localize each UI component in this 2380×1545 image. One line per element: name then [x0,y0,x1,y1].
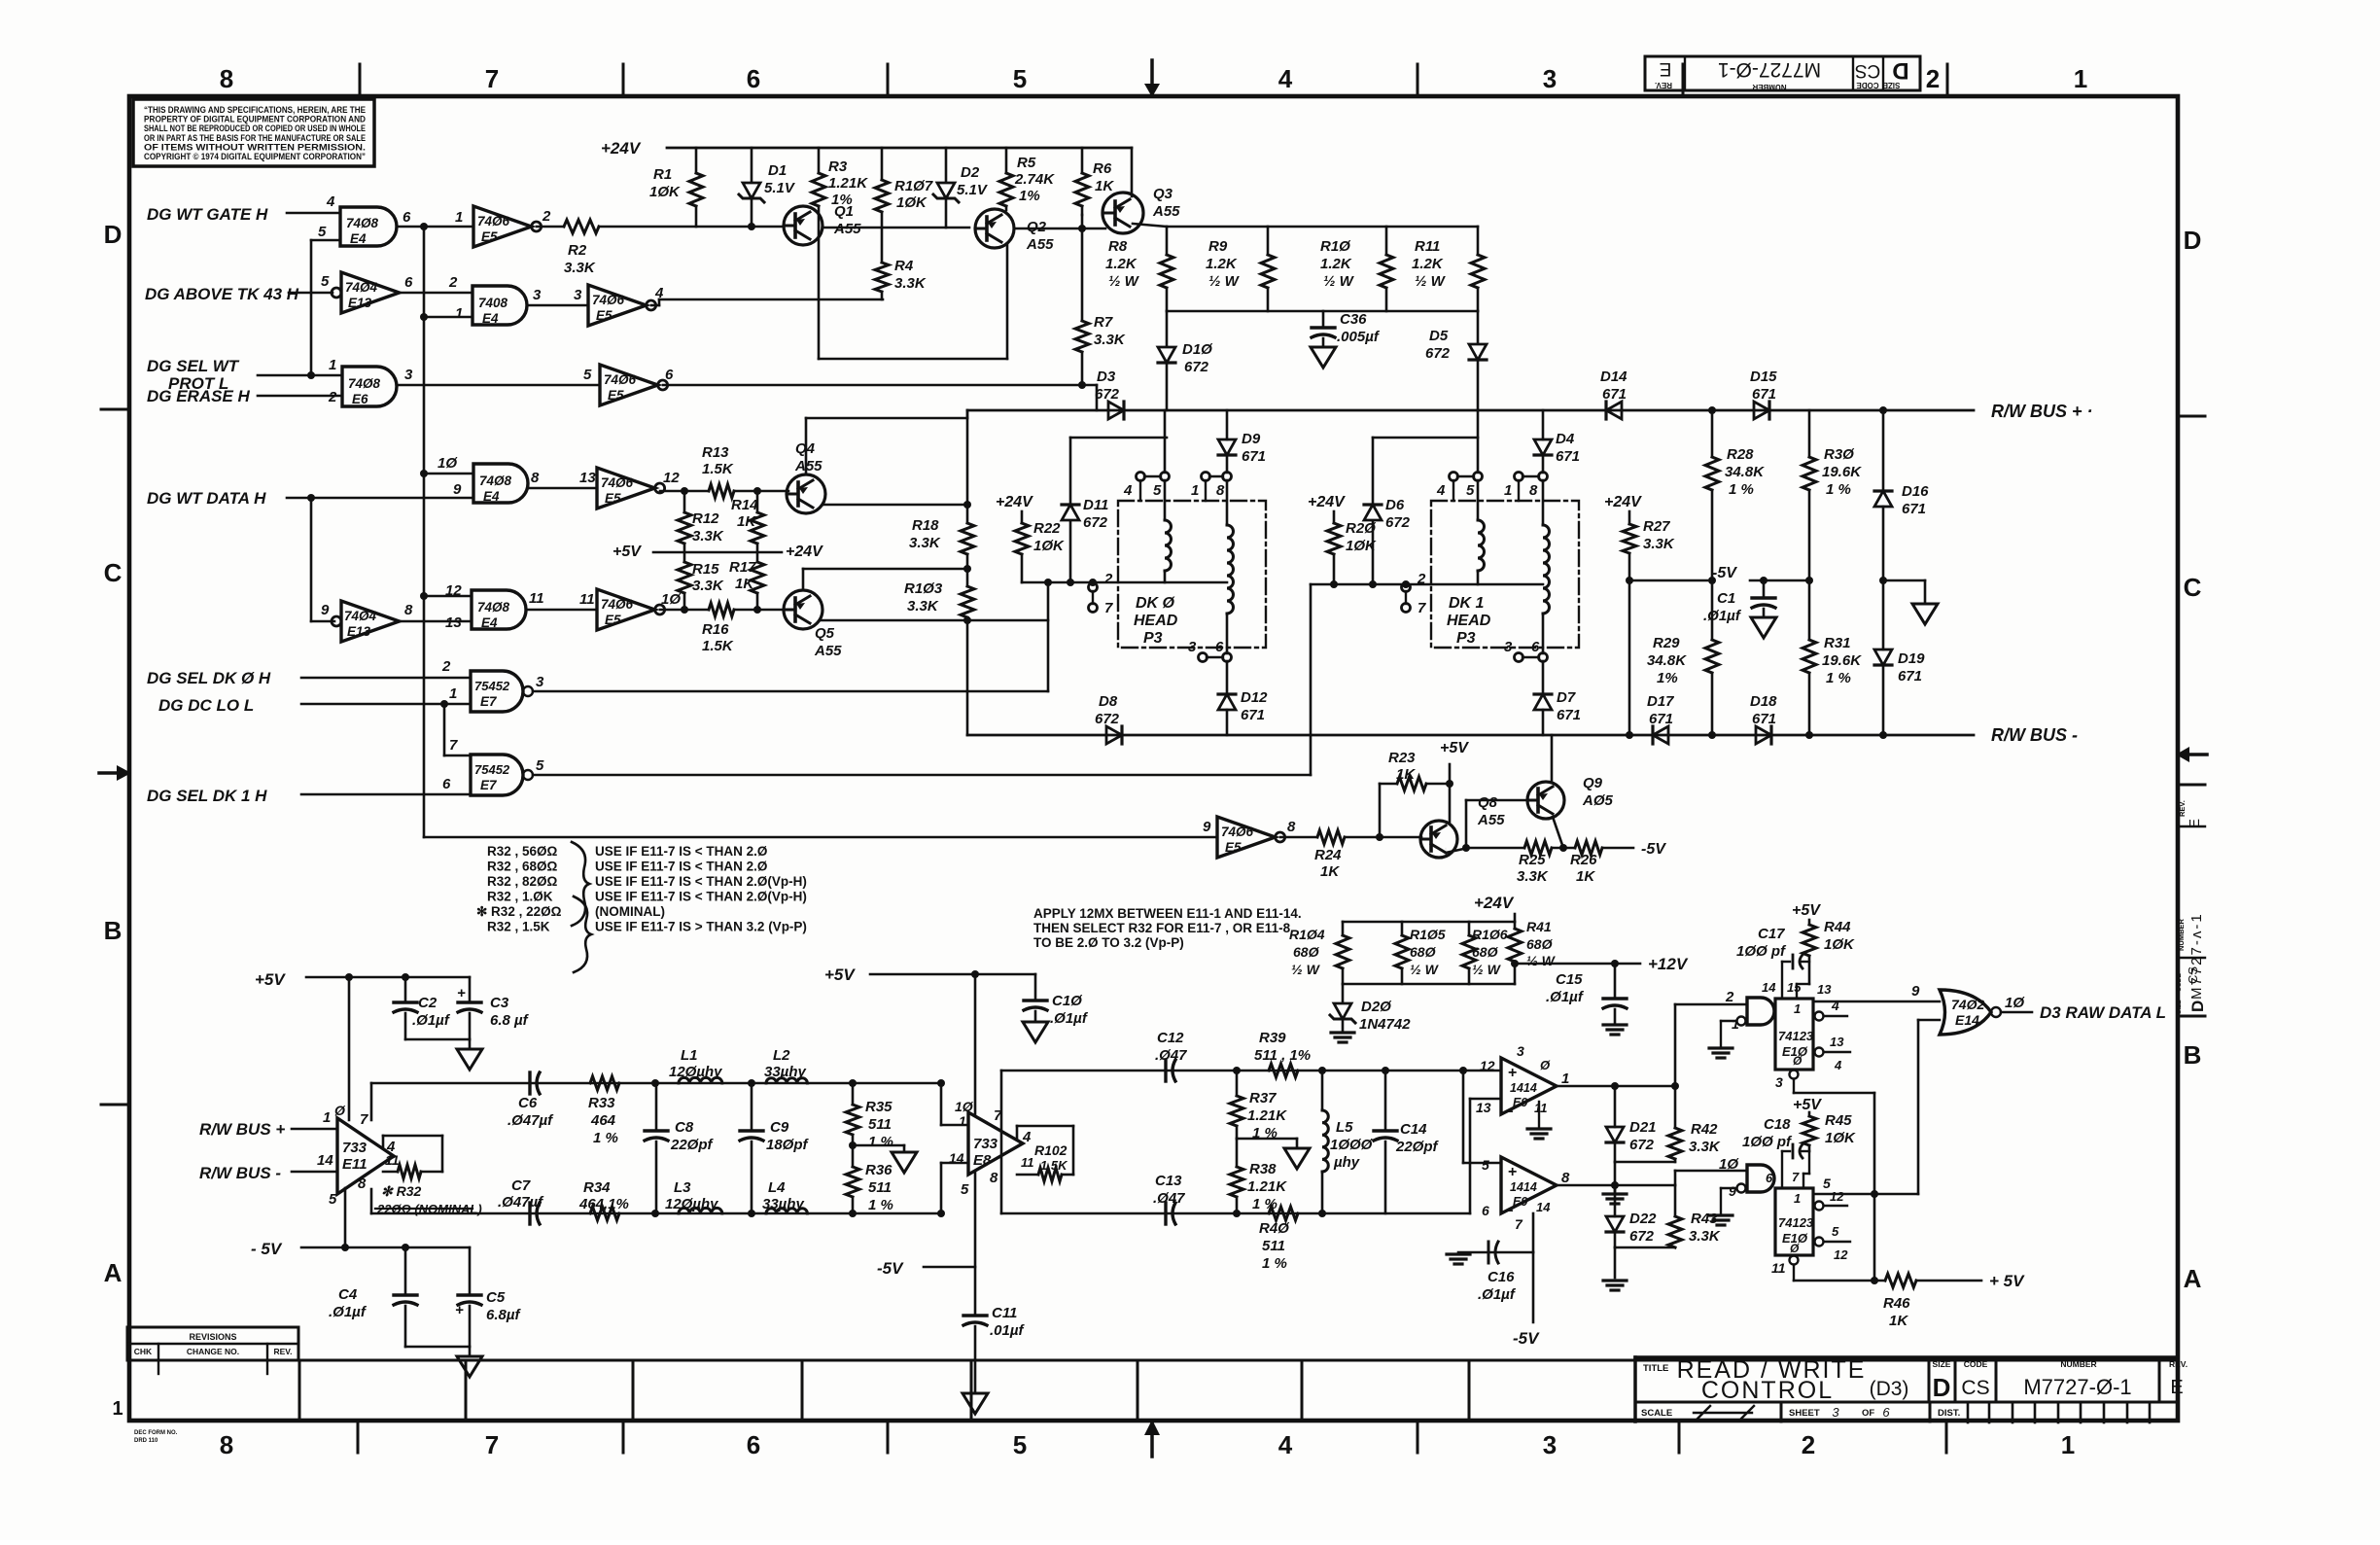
Q1 cross-couple vertical [818,206,821,359]
svg-text:3.3K: 3.3K [909,535,941,551]
C4/C5 bottom + gnd [405,1346,470,1349]
gnd for pin9 [1721,1187,1736,1189]
svg-text:733: 733 [342,1140,367,1156]
svg-text:R37: R37 [1249,1090,1277,1106]
svg-text:3.3K: 3.3K [1643,536,1675,552]
svg-text:1K: 1K [735,576,754,592]
diode D10 [1166,311,1169,345]
svg-text:SIZE: SIZE [2176,1000,2183,1014]
svg-text:2.74K: 2.74K [1014,171,1055,188]
E10a pin4 stub [1815,1012,1824,1021]
svg-text:74Ø8: 74Ø8 [477,600,510,614]
svg-text:75452: 75452 [474,679,510,693]
svg-text:(D3): (D3) [1870,1378,1909,1400]
svg-text:HEAD: HEAD [1447,613,1491,629]
svg-text:6: 6 [402,209,411,226]
svg-text:D22: D22 [1629,1211,1657,1227]
svg-text:1: 1 [455,209,463,226]
svg-text:“THIS DRAWING AND SPECIFICATIO: “THIS DRAWING AND SPECIFICATIONS, HEREIN… [144,105,366,115]
svg-text:3.3K: 3.3K [564,260,596,276]
wire E5c out long [663,384,1097,387]
svg-text:R13: R13 [702,444,729,461]
wire R13 to Q4 [734,490,788,493]
svg-text:Q8: Q8 [1478,794,1498,811]
svg-text:2: 2 [448,274,458,291]
resistor R5 [1005,148,1008,173]
svg-text:L4: L4 [768,1179,786,1196]
svg-text:3.3K: 3.3K [894,275,927,292]
svg-text:A: A [2184,1264,2202,1293]
svg-text:R32 , 68ØΩ: R32 , 68ØΩ [487,860,558,874]
zone ticks bottom [357,1421,360,1453]
svg-text:1.2K: 1.2K [1105,256,1137,272]
bottom strip row [129,1359,2178,1362]
svg-text:D5: D5 [1429,328,1449,344]
svg-text:1 %: 1 % [1729,481,1754,498]
wire R16 to Q5 [734,609,788,612]
resistor R107 [881,148,884,180]
svg-text:✻ R32: ✻ R32 [381,1183,422,1199]
capacitor C18 bridge [1781,1151,1783,1188]
svg-text:+: + [1508,1164,1517,1180]
svg-text:E5: E5 [605,613,621,627]
svg-text:E11: E11 [342,1156,367,1173]
transistor Q1 [784,206,822,245]
svg-text:19.6K: 19.6K [1822,464,1862,480]
svg-text:+24V: +24V [1308,494,1346,510]
DK1 coil B [1542,480,1545,525]
diode D18 [1756,726,1771,744]
svg-text:E6: E6 [352,392,368,406]
svg-text:A55: A55 [794,458,822,474]
comparator E9b 1414 triangle [1501,1157,1557,1213]
svg-text:5: 5 [1466,482,1475,499]
svg-text:(NOMINAL): (NOMINAL) [595,904,665,919]
resistor R1 [695,148,698,173]
svg-text:6: 6 [404,274,413,291]
resistor R45 [1808,1145,1811,1151]
resistor R14 [756,491,759,512]
svg-text:R44: R44 [1824,919,1851,935]
svg-text:4: 4 [1278,1430,1293,1459]
svg-text:2: 2 [441,658,451,675]
DK0 node wire [1022,581,1227,584]
svg-text:REVISIONS: REVISIONS [189,1332,236,1342]
svg-text:R39: R39 [1259,1030,1286,1046]
nor gate E14 7402 [1940,990,1991,1035]
svg-text:6.8µf: 6.8µf [486,1307,521,1323]
DK0 coil B [1226,480,1229,525]
contacts 1-8 [1202,473,1210,481]
E9a out wire [1557,1085,1675,1088]
svg-text:1: 1 [2061,1430,2075,1459]
E9a gnd [1538,1102,1540,1128]
svg-text:1: 1 [2074,64,2087,93]
svg-text:NUMBER: NUMBER [1752,83,1786,91]
svg-text:11: 11 [1534,1101,1548,1115]
svg-text:2: 2 [1103,571,1113,587]
svg-text:USE IF E11-7 IS < THAN 2.Ø(Vp-: USE IF E11-7 IS < THAN 2.Ø(Vp-H) [595,874,807,889]
svg-text:74Ø6: 74Ø6 [477,214,510,228]
svg-text:R45: R45 [1825,1112,1852,1129]
svg-text:672: 672 [1083,514,1108,531]
+5V riser to E11 [348,977,351,1120]
svg-text:SIZE: SIZE [1882,81,1900,89]
contacts 3-6 DK1 [1515,653,1523,662]
svg-text:R4: R4 [894,258,914,274]
svg-text:671: 671 [1649,711,1673,727]
svg-text:+24V: +24V [1474,894,1515,912]
svg-text:8: 8 [220,1430,233,1459]
svg-text:671: 671 [1602,386,1627,403]
svg-text:2: 2 [1725,989,1734,1005]
svg-text:R29: R29 [1653,635,1680,651]
svg-text:14: 14 [949,1150,964,1166]
wire E6 out to E5c [397,384,600,387]
svg-text:NUMBER: NUMBER [2177,919,2186,951]
svg-text:2: 2 [1802,1430,1815,1459]
table brace lower [574,896,591,972]
svg-text:THEN SELECT R32 FOR E11-7: THEN SELECT R32 FOR E11-7 , OR E11-8 [1033,921,1291,935]
wire Q2 to Q3 [1014,228,1105,230]
svg-text:68Ø: 68Ø [1293,944,1320,960]
svg-text:R36: R36 [865,1162,892,1178]
svg-text:DG ERASE H: DG ERASE H [147,387,251,405]
svg-text:Q1: Q1 [834,203,854,220]
svg-text:R28: R28 [1727,446,1754,463]
svg-text:C5: C5 [486,1289,506,1306]
svg-text:USE IF E11-7 IS < THAN 2.Ø(Vp-: USE IF E11-7 IS < THAN 2.Ø(Vp-H) [595,890,807,904]
svg-text:+24V: +24V [601,139,642,158]
svg-text:34.8K: 34.8K [1647,652,1687,669]
svg-text:SHALL NOT BE REPRODUCED OR COP: SHALL NOT BE REPRODUCED OR COPIED OR USE… [144,123,366,133]
one-shot E10a 74123 [1775,999,1813,1070]
svg-text:.Ø1µf: .Ø1µf [412,1012,451,1029]
svg-text:C: C [2184,573,2202,602]
svg-text:C6: C6 [518,1095,538,1111]
svg-text:D4: D4 [1556,431,1575,447]
svg-text:APPLY 12MX BETWEEN E11-1 A: APPLY 12MX BETWEEN E11-1 AND E11-14. [1033,906,1302,921]
resistor R18 [961,523,974,554]
svg-text:C: C [104,558,122,587]
zone ticks right border [2178,415,2205,418]
svg-text:R1Ø7: R1Ø7 [894,178,933,194]
mid wire to gnd [1237,1138,1297,1141]
svg-text:5: 5 [536,757,544,774]
svg-text:C11: C11 [992,1305,1017,1321]
svg-text:74Ø4: 74Ø4 [345,280,378,295]
svg-text:R25: R25 [1519,852,1546,868]
svg-text:USE IF E11-7 IS < THAN 2.Ø: USE IF E11-7 IS < THAN 2.Ø [595,860,767,874]
svg-text:12: 12 [1480,1058,1495,1073]
wire pin1 E4b [424,316,472,319]
svg-text:3.3K: 3.3K [692,578,724,594]
contacts 4-5 [1137,473,1145,481]
cross couple bottom [819,358,1007,361]
resistor R38 [1236,1139,1239,1167]
svg-text:E4: E4 [483,489,500,504]
svg-text:DG SEL WT: DG SEL WT [147,357,240,375]
svg-text:E13: E13 [348,296,372,310]
contacts 2-7 [1089,583,1098,592]
svg-text:672: 672 [1385,514,1411,531]
svg-text:33µhy: 33µhy [764,1064,806,1080]
svg-text:.Ø1µf: .Ø1µf [1546,989,1585,1005]
svg-text:R12: R12 [692,510,719,527]
E10b pin12 stub [1815,1202,1824,1211]
amp E8 733 triangle [968,1112,1023,1175]
fold arrow bottom [1150,1422,1154,1457]
svg-text:1: 1 [959,1113,966,1129]
capacitor C36 [1322,311,1325,327]
svg-text:R22: R22 [1033,520,1061,537]
resistor R46 [1885,1274,1916,1287]
Q5 emitter wire [821,619,1048,622]
resistor R16 [709,603,734,616]
svg-text:1414: 1414 [1510,1081,1537,1095]
svg-text:6.8 µf: 6.8 µf [490,1012,530,1029]
svg-text:1: 1 [455,305,463,322]
svg-text:1 %: 1 % [868,1134,893,1150]
svg-text:R38: R38 [1249,1161,1277,1177]
svg-text:HEAD: HEAD [1134,613,1178,629]
svg-text:74123: 74123 [1778,1215,1814,1230]
diode D7 [1542,661,1545,694]
capacitor C6 [528,1072,531,1094]
svg-text:11: 11 [1021,1155,1034,1170]
svg-text:C12: C12 [1157,1030,1184,1046]
svg-text:C18: C18 [1764,1116,1791,1133]
right border stamp (rotated) [2178,825,2205,827]
svg-text:1.5K: 1.5K [702,461,734,477]
svg-text:DIST.: DIST. [1938,1408,1960,1419]
and-gate E6 7408 [342,367,397,406]
svg-text:AØ5: AØ5 [1582,792,1614,809]
diode D8 [1106,726,1122,744]
svg-text:A: A [104,1258,122,1287]
resistor R37 [1236,1071,1239,1096]
resistor R106 [1468,922,1471,935]
riser pin5 to E14 pin8 [1917,1020,1920,1194]
diode D15 [1754,402,1769,419]
svg-text:USE IF E11-7 IS < THAN 2.Ø: USE IF E11-7 IS < THAN 2.Ø [595,844,767,859]
svg-text:464,1%: 464,1% [578,1196,629,1212]
svg-text:1.2K: 1.2K [1320,256,1352,272]
svg-text:.Ø47: .Ø47 [1153,1190,1185,1207]
svg-text:.Ø47: .Ø47 [1155,1047,1187,1064]
svg-text:L2: L2 [773,1047,790,1064]
svg-text:CODE: CODE [1856,81,1879,89]
R102 box [1017,1125,1073,1128]
cap bottom wire + gnd [405,1038,470,1041]
svg-text:671: 671 [1752,711,1776,727]
svg-text:R1Ø4: R1Ø4 [1289,927,1325,942]
svg-text:733: 733 [973,1136,998,1152]
svg-text:74Ø6: 74Ø6 [1221,825,1254,839]
svg-text:C14: C14 [1400,1121,1427,1138]
filter top wire [371,1082,941,1085]
svg-text:D2Ø: D2Ø [1361,999,1392,1015]
svg-text:L1: L1 [681,1047,698,1064]
transistor Q5 [784,590,822,629]
svg-text:CODE: CODE [1964,1359,1988,1369]
svg-text:R11: R11 [1415,238,1440,255]
one-shot E10b 74123 [1775,1188,1813,1255]
svg-text:671: 671 [1241,707,1265,723]
svg-text:4: 4 [1436,482,1446,499]
Q9 emitter [1553,817,1563,848]
svg-text:R32 , 1.5K: R32 , 1.5K [487,920,550,934]
svg-text:18Øpf: 18Øpf [766,1137,810,1153]
and gate B (to E10b) [1747,1165,1774,1192]
svg-text:E4: E4 [481,615,498,630]
R/W BUS+ wire [967,409,1974,412]
C16 [1532,1213,1535,1252]
capacitor C15 [1614,964,1617,998]
fold arrow left [99,771,122,775]
riser top filter to E8 [940,1083,943,1125]
svg-text:672: 672 [1629,1228,1655,1245]
E10a pin13/4 stub [1815,1048,1824,1057]
Q5 collector riser [802,569,805,590]
svg-text:1Ø: 1Ø [437,455,458,472]
svg-text:74Ø6: 74Ø6 [592,293,625,307]
svg-text:D1Ø: D1Ø [1182,341,1213,358]
svg-text:74Ø8: 74Ø8 [346,216,379,230]
svg-text:672: 672 [1629,1137,1655,1153]
svg-text:R46: R46 [1883,1295,1910,1312]
svg-text:E5: E5 [481,229,498,244]
svg-text:B: B [104,916,122,945]
svg-text:671: 671 [1556,448,1580,465]
svg-text:R1Ø6: R1Ø6 [1472,927,1508,942]
svg-text:4: 4 [326,193,335,210]
svg-text:D3 RAW DATA L: D3 RAW DATA L [2040,1003,2166,1022]
svg-text:OF ITEMS WITHOUT WRITTEN PERMI: OF ITEMS WITHOUT WRITTEN PERMISSION. [144,142,366,152]
E10b pin5 wire [1813,1193,1918,1196]
svg-text:672: 672 [1095,711,1120,727]
C1 [1763,580,1766,597]
svg-text:C1: C1 [1717,590,1735,607]
inductor L3 [651,1210,659,1217]
svg-text:1: 1 [1504,482,1512,499]
svg-text:C9: C9 [770,1119,789,1136]
svg-text:Ø: Ø [1793,1054,1802,1068]
svg-text:R33: R33 [588,1095,615,1111]
svg-text:+24V: +24V [996,494,1033,510]
svg-text:8: 8 [1561,1170,1570,1186]
svg-text:D19: D19 [1898,650,1925,667]
svg-text:1Ø: 1Ø [2005,995,2025,1011]
svg-text:5: 5 [1013,1430,1027,1459]
svg-text:½ W: ½ W [1108,273,1140,290]
svg-text:Q3: Q3 [1153,186,1173,202]
svg-text:6: 6 [747,64,760,93]
inductor L4 [748,1210,755,1217]
svg-text:7408: 7408 [478,296,508,310]
svg-text:.Ø47µf: .Ø47µf [498,1194,544,1211]
amp E11 733 triangle [337,1118,394,1194]
svg-text:4: 4 [386,1139,396,1155]
svg-text:D7: D7 [1557,689,1576,706]
svg-text:+5V: +5V [1793,1097,1822,1113]
svg-text:4: 4 [1834,1058,1842,1072]
svg-text:3: 3 [536,674,544,690]
svg-text:.Ø1µf: .Ø1µf [1703,608,1742,624]
svg-text:R4Ø: R4Ø [1259,1220,1290,1237]
svg-text:1%: 1% [1657,670,1678,686]
E10b pin5/12 stub [1815,1238,1824,1247]
svg-text:CONTROL: CONTROL [1701,1377,1834,1404]
svg-text:75452: 75452 [474,762,510,777]
svg-text:R16: R16 [702,621,729,638]
svg-text:9: 9 [321,602,330,618]
svg-text:+24V: +24V [1604,494,1642,510]
gnd branch [1883,579,1925,582]
svg-text:1 %: 1 % [593,1130,618,1146]
svg-text:OF: OF [1862,1408,1874,1419]
svg-text:R35: R35 [865,1099,892,1115]
diode D11 [1069,522,1072,582]
svg-text:12: 12 [1830,1189,1844,1204]
svg-text:7: 7 [1104,600,1113,616]
svg-text:2: 2 [1417,571,1426,587]
title block [1633,1357,1637,1422]
svg-text:3.3K: 3.3K [1517,868,1549,885]
resistor R12 [683,491,686,512]
svg-text:1ØK: 1ØK [1033,538,1065,554]
svg-text:9: 9 [1911,983,1920,1000]
svg-text:A55: A55 [1026,236,1054,253]
svg-text:D18: D18 [1750,693,1777,710]
svg-text:R17: R17 [729,559,756,576]
svg-text:Ø: Ø [334,1103,346,1118]
svg-text:A55: A55 [1477,812,1505,828]
svg-text:Q9: Q9 [1583,775,1603,791]
svg-text:22Øpf: 22Øpf [670,1137,715,1153]
svg-text:1 %: 1 % [1826,670,1851,686]
and-gate E4b 7408 [472,286,527,325]
svg-text:E14: E14 [1955,1012,1979,1028]
long wire to E5f [424,836,1217,839]
svg-text:22Øpf: 22Øpf [1395,1139,1440,1155]
resistor R40 [1269,1207,1298,1220]
svg-text:5: 5 [321,273,330,290]
out top wire [1000,1071,1003,1213]
inverter E5b 7406 [588,285,647,326]
capacitor C9 [751,1083,753,1130]
svg-text:74Ø2: 74Ø2 [1951,997,1984,1012]
svg-text:E5: E5 [605,491,621,506]
svg-text:7: 7 [485,1430,499,1459]
wire E5e out [660,609,709,612]
svg-text:6: 6 [1766,1171,1773,1185]
svg-text:1.5K: 1.5K [702,638,734,654]
svg-text:13: 13 [579,470,596,486]
svg-text:C13: C13 [1155,1173,1182,1189]
svg-text:Q2: Q2 [1027,219,1047,235]
svg-text:REV.: REV. [1655,81,1672,89]
capacitor C12 [1164,1060,1167,1081]
riser to E9a minus [1469,1099,1472,1213]
svg-text:A55: A55 [814,643,842,659]
inductor L1 [651,1079,659,1087]
svg-text:+: + [1508,1065,1517,1081]
svg-text:R/W BUS +: R/W BUS + [199,1120,285,1139]
svg-text:DG WT GATE H: DG WT GATE H [147,205,268,224]
svg-text:USE IF E11-7 IS > THAN 3.2 (Vp: USE IF E11-7 IS > THAN 3.2 (Vp-P) [595,920,807,934]
svg-text:SIZE: SIZE [1933,1359,1951,1369]
